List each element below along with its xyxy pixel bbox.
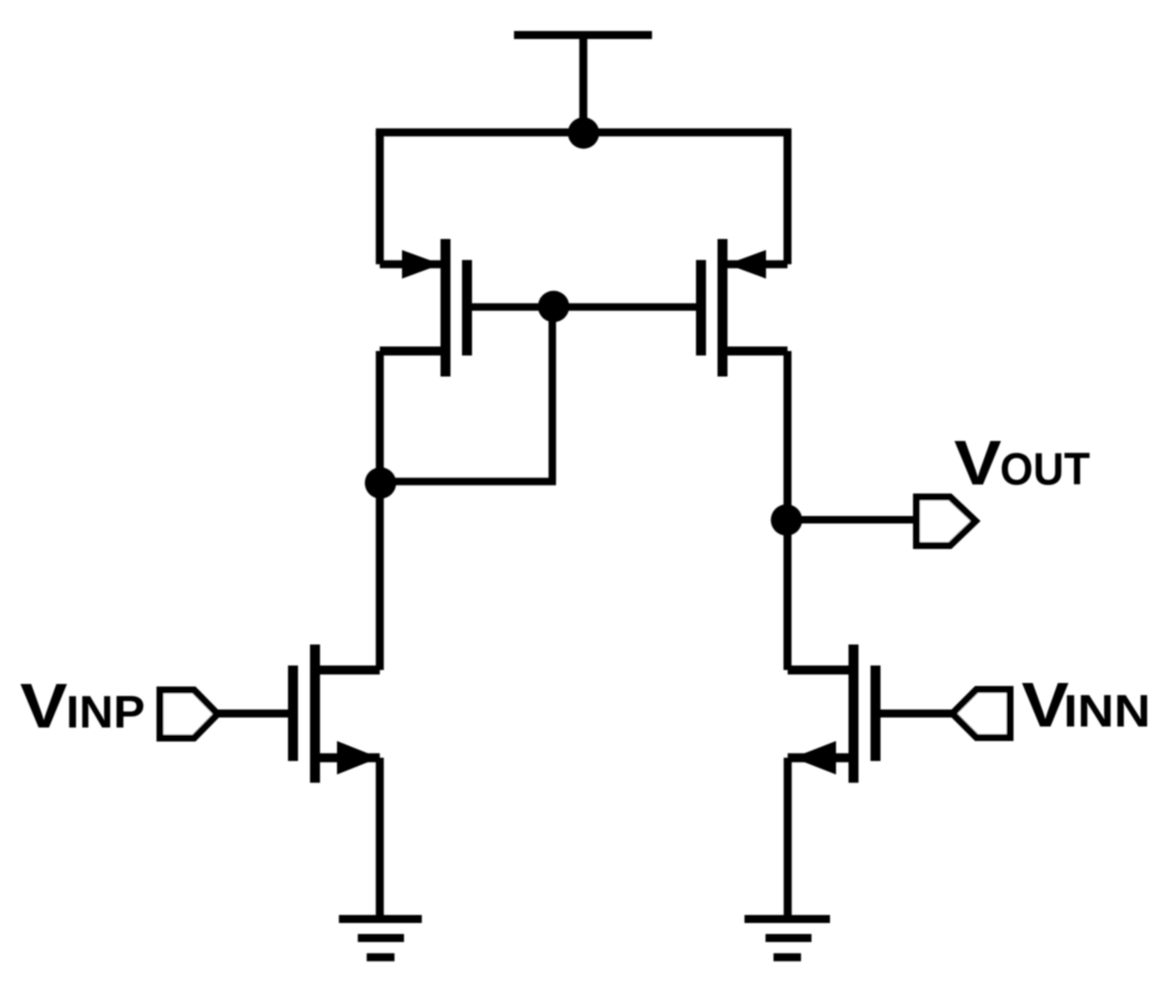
wire gate tie horizontal (381, 478, 556, 486)
port VINP (160, 690, 218, 738)
ground GND1 (339, 919, 422, 957)
power supply VDD (514, 35, 652, 133)
wire M2 source to ground (784, 758, 792, 919)
svg-text:INN: INN (1064, 686, 1151, 737)
node VDD junction (568, 117, 599, 148)
wire M1 source to ground (376, 758, 384, 919)
wire VINP to M1 gate (217, 710, 293, 718)
svg-text:V: V (954, 429, 1002, 499)
label VINP (20, 672, 145, 742)
node VOUT junction (771, 504, 802, 535)
node M3 drain junction (365, 467, 396, 498)
wire M3 drain down (376, 351, 384, 483)
wire VOUT node to M2 drain (784, 520, 792, 670)
label VINN (1022, 671, 1151, 741)
ground GND2 (745, 919, 831, 957)
wire VOUT node to port (787, 516, 917, 524)
nmos M1 (293, 645, 380, 783)
svg-text:V: V (1022, 671, 1070, 741)
wire M3 drain to M1 drain (376, 483, 384, 670)
label VOUT (954, 429, 1090, 499)
wire M3 gate to M4 gate (467, 303, 701, 311)
port VINN (953, 690, 1011, 738)
nmos M2 (788, 645, 876, 783)
pmos M3 (380, 239, 467, 377)
wire right vertical from rail to M4 source (784, 132, 792, 264)
svg-text:V: V (20, 672, 68, 742)
wire M4 drain down (784, 351, 792, 520)
node gate junction (538, 291, 569, 322)
wire VINN to M2 gate (876, 710, 954, 718)
pmos M4 (701, 239, 788, 377)
wire top rail horizontal (376, 128, 792, 136)
wire gate tie vertical (549, 307, 557, 483)
svg-text:OUT: OUT (1000, 444, 1090, 495)
wire left vertical from rail to M3 source (376, 132, 384, 264)
svg-text:INP: INP (66, 687, 145, 738)
port VOUT (917, 497, 976, 546)
